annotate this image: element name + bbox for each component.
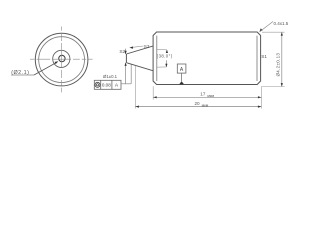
svg-text:S2: S2 [119,49,125,55]
svg-text:(Ø2.1): (Ø2.1) [11,70,29,76]
cone lower slant [126,63,152,71]
datum A stem [181,73,183,81]
20 dim right arrowhead [258,106,261,108]
tip dimension lower arrowhead [125,63,127,66]
cone tip face [125,54,127,63]
20 dimension line [135,106,261,108]
diameter dim top arrowhead [281,32,283,35]
chamfer leader arrowhead [259,28,262,32]
svg-text:мкм: мкм [202,103,209,107]
cone upper slant [126,46,152,54]
tip dimension line upper [125,49,127,54]
svg-text:Ø4.2±0.13: Ø4.2±0.13 [275,53,280,77]
front view center hole circle [59,55,65,61]
front view outer circle [35,33,88,86]
diameter dim bottom arrowhead [281,83,283,86]
ext line for 20 dim at tip [134,66,136,109]
svg-text:мкм: мкм [207,94,214,98]
frame leader horizontal [121,83,131,85]
tip dimension line lower [125,63,127,84]
left face chamfer line [156,36,158,81]
ext line for 17 dim at left face [152,86,154,99]
angle arc bottom segment [165,60,167,67]
diameter ext line bottom [262,86,285,88]
leader shelf for (Ø2.1) [11,74,34,76]
right face chamfer line [256,36,258,81]
S3 leader arrowhead [129,46,133,48]
angle dim lower ray [156,66,166,68]
17 dim left arrowhead [153,96,156,98]
20 dim left arrowhead [136,106,139,108]
angle arc bottom arrowhead [165,64,167,67]
diameter dimension line [281,32,283,86]
svg-text:17: 17 [200,92,206,97]
17 dimension line [153,96,261,98]
svg-text:S3: S3 [144,44,150,49]
svg-text:0.08: 0.08 [102,83,111,88]
feature control frame box [94,80,121,89]
angle dim upper ray [156,48,167,50]
cylinder side view outline [153,32,261,85]
front view inner ring circle [39,37,85,83]
tip dimension upper arrowhead [125,51,127,54]
vertical centerline [61,27,63,93]
frame cell divider 1 [100,80,102,89]
datum A box [177,64,186,73]
svg-text:0.4x1.5: 0.4x1.5 [274,21,289,26]
17 dim right arrowhead [258,96,261,98]
front view hub circle [53,50,70,67]
horizontal centerline [30,58,93,60]
svg-text:20: 20 [195,101,201,106]
leader arrowhead [55,61,59,64]
frame leader vertical to cone surface [130,64,132,84]
angle arc top arrowhead [166,50,168,53]
svg-text:Ø1±0.1: Ø1±0.1 [103,74,118,79]
frame cell divider 2 [111,80,113,89]
diameter ext line top [262,31,285,33]
angle arc top segment [166,50,168,53]
leader line to center hole [34,63,56,75]
ext line at right face bottom [260,86,262,108]
concentricity symbol [95,82,100,87]
svg-text:S1: S1 [261,54,267,59]
S3 leader [132,46,144,47]
chamfer leader line [260,22,273,32]
datum A triangle [179,81,184,84]
svg-text:(38.0°): (38.0°) [157,53,173,58]
